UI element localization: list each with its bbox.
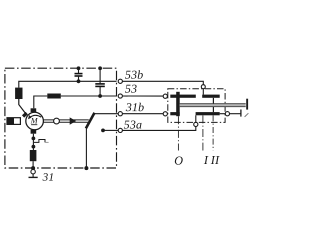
- wire 53 inside box: [61, 95, 117, 97]
- motor M armature: [26, 112, 44, 130]
- continuation slash: [245, 113, 249, 117]
- contact bar top-right: [202, 95, 220, 98]
- resistor R3: [30, 150, 37, 161]
- resistor R2: [47, 94, 61, 99]
- permanent magnet: [7, 118, 20, 125]
- wire 53a to switch: [122, 127, 195, 131]
- switch terminal bottom: [194, 122, 198, 126]
- switch terminal right: [225, 112, 229, 116]
- brush left (third brush): [22, 112, 28, 118]
- junction C2-53: [98, 94, 102, 98]
- end tick: [240, 110, 242, 117]
- junction C1-53b: [77, 79, 81, 83]
- brush bottom: [31, 130, 37, 134]
- wire R3 to terminal 31: [32, 161, 34, 169]
- resistor R1: [15, 88, 22, 99]
- switch terminal 31b: [163, 112, 167, 116]
- park switch lever: [86, 113, 95, 129]
- wire bottom terminal riser: [195, 115, 197, 122]
- connector bar II: [212, 98, 214, 112]
- position line II: [212, 115, 214, 150]
- switch terminal 53: [163, 94, 167, 98]
- capacitor C1: [75, 68, 83, 81]
- label 53a: [124, 121, 142, 129]
- actuator shaft grey: [180, 99, 248, 110]
- terminal 53b: [118, 79, 122, 83]
- label I: [204, 156, 209, 164]
- wire 53a inside box: [103, 129, 118, 131]
- junction C2-top: [98, 66, 102, 70]
- cam on shaft: [54, 118, 60, 124]
- motor label M underline: [31, 124, 37, 126]
- junction lever-border: [84, 166, 88, 170]
- switch block border (dash-dot): [168, 89, 225, 123]
- wire lever to ground bus: [85, 128, 87, 168]
- junction C1-top: [77, 66, 81, 70]
- label 31b: [126, 103, 144, 111]
- switch terminal top: [201, 85, 205, 89]
- contact stud 53a: [101, 129, 105, 133]
- junction below motor: [32, 137, 36, 141]
- wire top terminal drop: [202, 89, 204, 95]
- junction on border bottom: [31, 166, 35, 170]
- position line I: [202, 115, 204, 150]
- label 53b: [125, 70, 143, 78]
- wire 31b to switch: [122, 113, 163, 115]
- wire 53b to switch: [122, 81, 203, 84]
- wire right stub: [230, 113, 241, 115]
- brush top: [31, 108, 37, 112]
- terminal 53a: [118, 128, 122, 132]
- wire to terminal 31 right: [220, 113, 226, 115]
- wire motor bottom: [32, 134, 34, 150]
- terminal 31 circle: [31, 170, 35, 174]
- thermal switch contact: [34, 140, 49, 143]
- contact bar top-left: [170, 95, 196, 98]
- label 31: [43, 173, 53, 181]
- motor rotation arc arrow: [29, 115, 41, 118]
- wire R1 to brush: [19, 99, 26, 114]
- motor label M: [31, 118, 38, 123]
- contact bar vertical left: [176, 92, 180, 116]
- contact bar bottom-right: [196, 112, 220, 115]
- wire 53 to switch: [122, 95, 163, 97]
- label O: [175, 157, 183, 165]
- junction above R3: [32, 145, 36, 149]
- capacitor C2: [95, 68, 105, 96]
- contact stub bottom-left: [170, 112, 179, 115]
- motor housing border (dash-dot box): [5, 68, 117, 168]
- wire 53b inside box: [19, 81, 117, 87]
- drive arrow: [70, 117, 76, 124]
- wire 31b from lever: [94, 113, 118, 115]
- ground: [29, 174, 38, 178]
- terminal 53: [118, 94, 122, 98]
- label 53: [125, 85, 137, 93]
- wire R2 to motor brush: [34, 96, 48, 108]
- position line O: [177, 116, 179, 150]
- drive shaft double line: [43, 120, 89, 122]
- terminal 31b: [118, 112, 122, 116]
- label II: [211, 156, 220, 164]
